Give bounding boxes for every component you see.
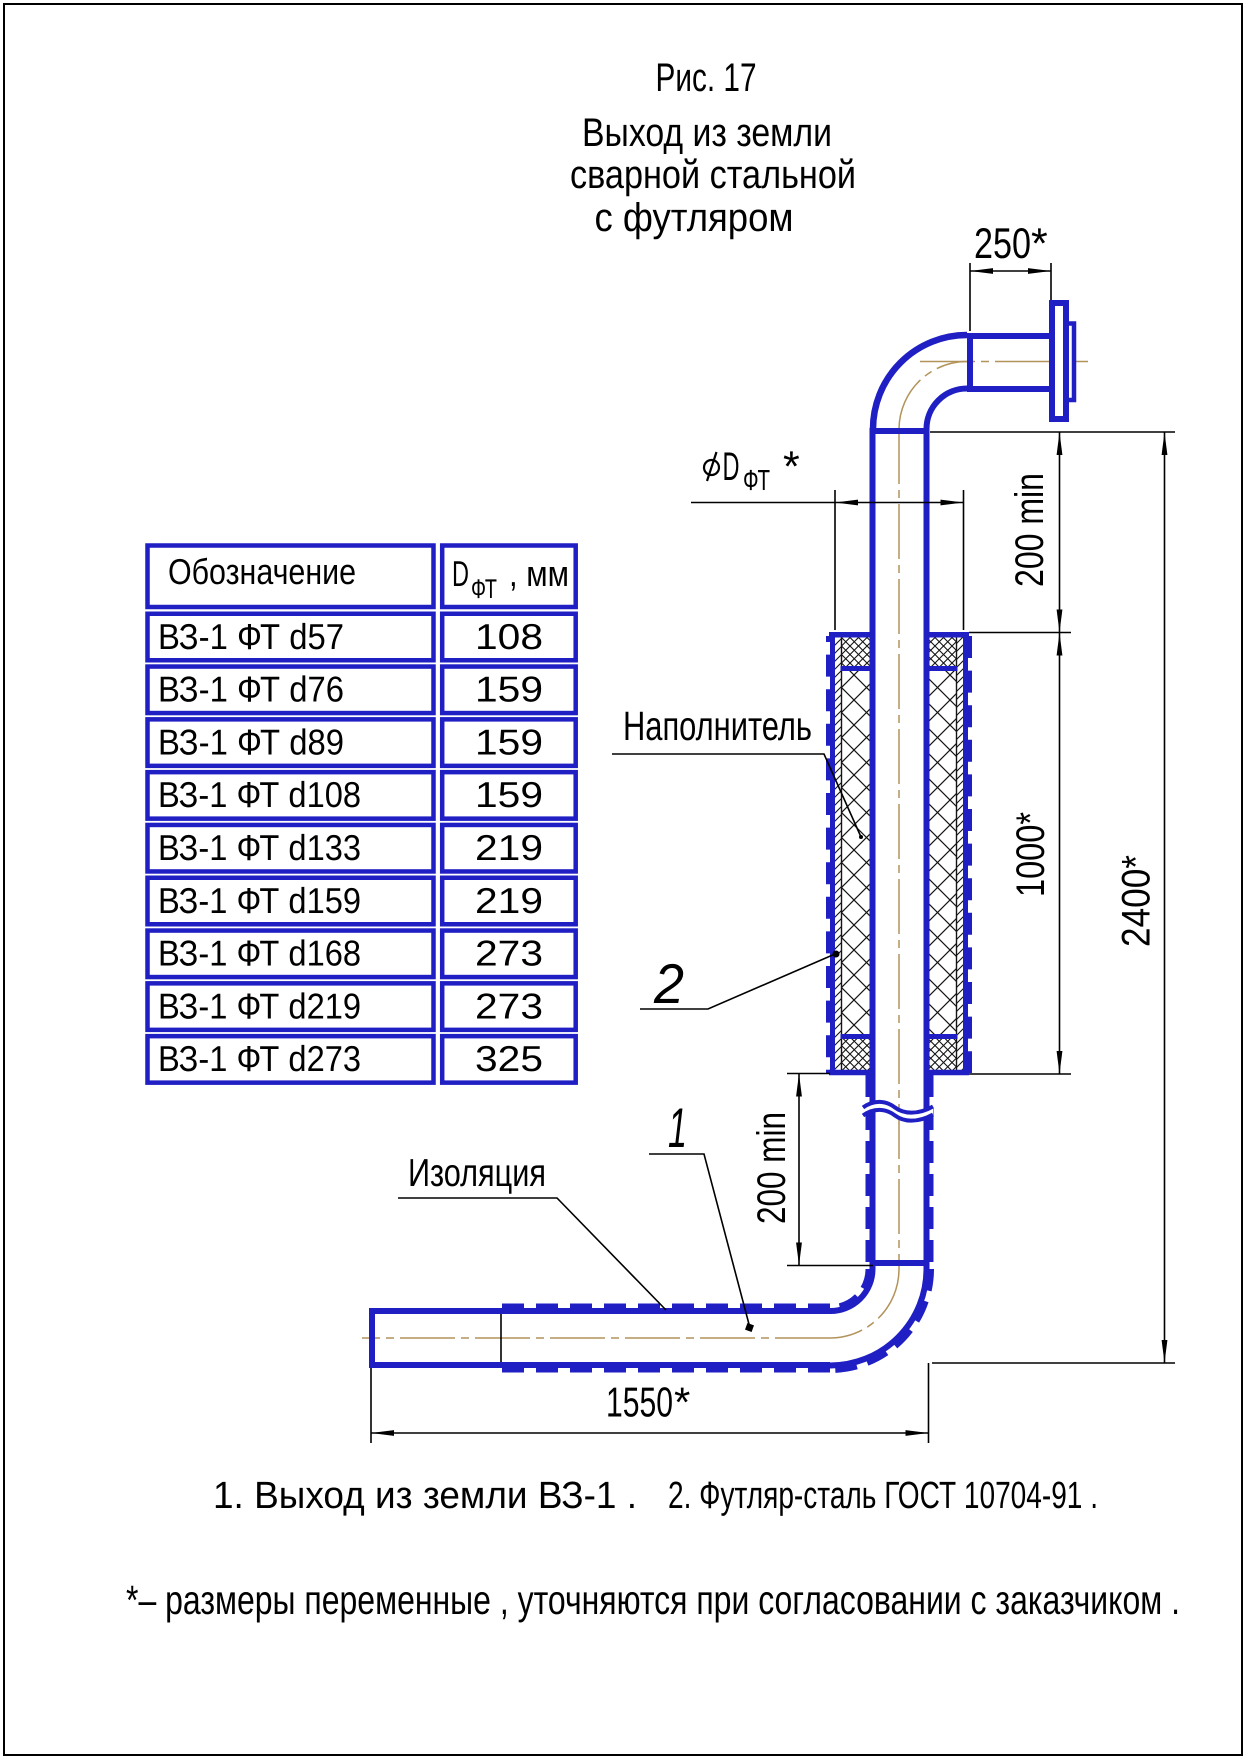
svg-text:ВЗ-1 ФТ d168: ВЗ-1 ФТ d168 bbox=[158, 933, 361, 974]
svg-text:ФТ: ФТ bbox=[471, 574, 497, 604]
leader 1 bbox=[649, 1154, 750, 1328]
centerline: top bend arc bbox=[899, 362, 967, 430]
svg-text:159: 159 bbox=[475, 774, 543, 815]
leader dot 2 bbox=[833, 951, 840, 958]
arrow 1000 top bbox=[1057, 633, 1063, 656]
svg-text:250: 250 bbox=[974, 220, 1031, 268]
table row 2 right box bbox=[442, 667, 576, 714]
casing right wall hatched strip bbox=[957, 637, 964, 1070]
ext line weld lower left bbox=[787, 1265, 873, 1267]
seal separator top bbox=[841, 666, 958, 671]
bottom elbow outer arc bbox=[830, 1263, 927, 1366]
casing right outer wall bbox=[963, 632, 968, 1075]
bottom pipe bottom wall bbox=[372, 1362, 830, 1368]
svg-text:*: * bbox=[1031, 220, 1048, 268]
ext line casing top right bbox=[969, 632, 1071, 634]
riser left wall bbox=[870, 431, 876, 1263]
table row 3 left box bbox=[148, 719, 434, 766]
bottom pipe end cap bbox=[369, 1308, 375, 1368]
ext line 1550 right bbox=[928, 1363, 930, 1443]
flange back plate bbox=[1056, 324, 1074, 401]
table header right box bbox=[442, 546, 576, 608]
flange main plate bbox=[1052, 303, 1066, 419]
leader napolnitel bbox=[612, 754, 861, 837]
ext line 250 right bbox=[1050, 263, 1052, 300]
casing top cap right bbox=[925, 632, 970, 638]
table row 4 right box bbox=[442, 772, 576, 819]
svg-text:ВЗ-1 ФТ d273: ВЗ-1 ФТ d273 bbox=[158, 1038, 361, 1079]
pipe break wavy line upper bbox=[863, 1102, 933, 1113]
svg-text:*– размеры переменные , уточня: *– размеры переменные , уточняются при с… bbox=[126, 1577, 1180, 1623]
dim line 2400 bbox=[1164, 432, 1166, 1363]
svg-text:D: D bbox=[723, 445, 740, 489]
leader dot napolnitel bbox=[859, 835, 863, 839]
ext line casing bottom right bbox=[969, 1073, 1071, 1075]
arrow dia left bbox=[835, 500, 858, 506]
svg-text:273: 273 bbox=[475, 933, 543, 974]
table row 5 right box bbox=[442, 825, 576, 872]
ext line 250 left bbox=[969, 263, 971, 331]
svg-text:2: 2 bbox=[653, 952, 684, 1015]
svg-text:159: 159 bbox=[475, 721, 543, 762]
casing left outer wall bbox=[830, 632, 835, 1075]
svg-text:219: 219 bbox=[475, 880, 543, 921]
dim text dia DFT bbox=[704, 443, 800, 497]
table row 8 right box bbox=[442, 983, 576, 1030]
svg-text:ВЗ-1 ФТ d133: ВЗ-1 ФТ d133 bbox=[158, 827, 361, 868]
svg-text:ВЗ-1 ФТ d76: ВЗ-1 ФТ d76 bbox=[158, 669, 344, 710]
svg-text:219: 219 bbox=[475, 827, 543, 868]
centerline: bottom bend arc bbox=[830, 1269, 899, 1338]
table row 1 right box bbox=[442, 614, 576, 661]
svg-text:325: 325 bbox=[475, 1038, 543, 1079]
bottom pipe insulation dashes top bbox=[502, 1304, 830, 1309]
top seal block left bbox=[842, 637, 875, 666]
svg-text:ВЗ-1 ФТ d219: ВЗ-1 ФТ d219 bbox=[158, 985, 361, 1026]
svg-text:ФТ: ФТ bbox=[743, 465, 770, 497]
svg-text:, мм: , мм bbox=[509, 553, 569, 594]
table row 9 right box bbox=[442, 1036, 576, 1083]
table row 5 left box bbox=[148, 825, 434, 872]
table row 7 right box bbox=[442, 931, 576, 978]
bottom seal block left bbox=[842, 1039, 875, 1070]
svg-text:Изоляция: Изоляция bbox=[408, 1152, 546, 1195]
dim line dia bbox=[691, 502, 964, 504]
svg-text:108: 108 bbox=[475, 616, 543, 657]
arrow 1550 left bbox=[371, 1430, 394, 1436]
svg-text:ВЗ-1 ФТ d159: ВЗ-1 ФТ d159 bbox=[158, 880, 361, 921]
filler right annulus bbox=[925, 671, 957, 1034]
svg-text:ВЗ-1 ФТ d108: ВЗ-1 ФТ d108 bbox=[158, 774, 361, 815]
svg-text:2. Футляр-сталь ГОСТ 10704-91: 2. Футляр-сталь ГОСТ 10704-91 . bbox=[668, 1475, 1098, 1517]
ext line dia right bbox=[963, 490, 965, 630]
bottom elbow outer insulation dash arc bbox=[830, 1269, 932, 1371]
top elbow outer arc bbox=[873, 335, 967, 429]
arrow 1550 right bbox=[906, 1430, 929, 1436]
arrow 200l top bbox=[796, 1074, 802, 1097]
svg-text:Наполнитель: Наполнитель bbox=[623, 703, 812, 749]
svg-text:200 min: 200 min bbox=[750, 1112, 794, 1224]
dim line 1000 bbox=[1059, 633, 1061, 1075]
svg-text:1550: 1550 bbox=[606, 1379, 673, 1426]
filler left annulus bbox=[842, 671, 875, 1034]
svg-text:ВЗ-1 ФТ d89: ВЗ-1 ФТ d89 bbox=[158, 721, 344, 762]
svg-text:273: 273 bbox=[475, 985, 543, 1026]
table row 8 left box bbox=[148, 983, 434, 1030]
svg-text:D: D bbox=[452, 553, 469, 594]
ext line top horizontal y432 bbox=[930, 431, 1175, 433]
table row 1 left box bbox=[148, 614, 434, 661]
dim line 1550 bbox=[371, 1432, 929, 1434]
table row boxes bbox=[148, 614, 576, 1083]
table header left box bbox=[148, 546, 434, 608]
svg-text:2400*: 2400* bbox=[1115, 855, 1159, 947]
svg-text:200 min: 200 min bbox=[1008, 473, 1052, 587]
centerline: bottom horizontal bbox=[362, 1337, 830, 1339]
dim line 200min upper bbox=[1059, 432, 1061, 633]
dim line 200min lower bbox=[798, 1074, 800, 1266]
svg-text:с футляром: с футляром bbox=[595, 196, 794, 240]
riser insulation dashes left bbox=[866, 1075, 871, 1262]
svg-text:159: 159 bbox=[475, 669, 543, 710]
riser insulation dashes right bbox=[929, 1075, 934, 1262]
pipe break wavy line lower bbox=[863, 1110, 933, 1121]
svg-text:1. Выход из земли ВЗ-1 .: 1. Выход из земли ВЗ-1 . bbox=[213, 1475, 637, 1517]
leader dot 1 bbox=[745, 1323, 754, 1332]
top horizontal pipe bottom wall bbox=[967, 386, 1052, 392]
svg-text:*: * bbox=[674, 1379, 690, 1426]
arrow 250 left bbox=[970, 268, 993, 274]
bottom elbow inner insulation dash arc bbox=[830, 1269, 868, 1307]
leader izolyatsiya bbox=[398, 1198, 666, 1310]
seal separator bottom bbox=[841, 1034, 958, 1039]
ext line casing bottom left bbox=[787, 1073, 830, 1075]
arrow 1000 bottom bbox=[1057, 1051, 1063, 1074]
weld seam bottom pipe bbox=[500, 1314, 502, 1362]
table row 7 left box bbox=[148, 931, 434, 978]
centerline: top horizontal through flange bbox=[920, 361, 1088, 363]
bottom seal block right bbox=[925, 1039, 957, 1070]
casing left wall hatched strip bbox=[835, 637, 842, 1070]
arrow 250 right bbox=[1028, 268, 1051, 274]
table row 6 right box bbox=[442, 878, 576, 925]
arrow 200u top bbox=[1057, 432, 1063, 455]
weld seam top elbow/straight bbox=[967, 333, 973, 392]
svg-text:Рис. 17: Рис. 17 bbox=[656, 56, 757, 100]
casing insulation dashes right bbox=[967, 636, 972, 1073]
casing insulation dashes left bbox=[826, 636, 831, 1073]
casing bottom cap right bbox=[925, 1070, 970, 1076]
dim line 250 bbox=[970, 270, 1051, 272]
riser right wall bbox=[924, 431, 930, 1263]
arrow 200l bottom bbox=[796, 1243, 802, 1266]
svg-text:ВЗ-1 ФТ d57: ВЗ-1 ФТ d57 bbox=[158, 616, 344, 657]
weld seam elbow/riser bbox=[870, 428, 930, 434]
svg-text:Обозначение: Обозначение bbox=[168, 551, 356, 592]
top horizontal pipe top wall bbox=[967, 333, 1052, 339]
leader 2 bbox=[640, 954, 835, 1009]
bottom elbow inner arc bbox=[830, 1263, 873, 1311]
svg-text:сварной стальной: сварной стальной bbox=[570, 153, 856, 197]
centerline: vertical riser bbox=[898, 429, 900, 1269]
bottom pipe top wall bbox=[372, 1308, 830, 1314]
ext line bottom y1363 bbox=[932, 1362, 1175, 1364]
top elbow inner arc bbox=[927, 389, 968, 430]
svg-text:Выход из земли: Выход из земли bbox=[582, 111, 832, 155]
svg-text:1: 1 bbox=[668, 1096, 687, 1159]
svg-text:1000*: 1000* bbox=[1009, 812, 1053, 897]
arrow 2400 bottom bbox=[1162, 1340, 1168, 1363]
weld seam riser/bottom elbow bbox=[870, 1260, 930, 1266]
top seal block right bbox=[925, 637, 957, 666]
casing inner wall thin lines bbox=[842, 634, 957, 1072]
pipe break white band bbox=[863, 1102, 933, 1121]
ext line dia left bbox=[834, 490, 836, 630]
arrow dia right bbox=[941, 500, 964, 506]
arrow 200u bottom bbox=[1057, 610, 1063, 633]
arrow 2400 top bbox=[1162, 432, 1168, 455]
table row 6 left box bbox=[148, 878, 434, 925]
table row 2 left box bbox=[148, 667, 434, 714]
table row 9 left box bbox=[148, 1036, 434, 1083]
ext line 1550 left bbox=[370, 1368, 372, 1443]
table row 3 right box bbox=[442, 719, 576, 766]
casing bottom cap left bbox=[829, 1070, 875, 1076]
casing top cap left bbox=[829, 632, 875, 638]
bottom pipe insulation dashes bottom bbox=[502, 1368, 830, 1373]
table row 4 left box bbox=[148, 772, 434, 819]
svg-text:*: * bbox=[783, 443, 800, 491]
